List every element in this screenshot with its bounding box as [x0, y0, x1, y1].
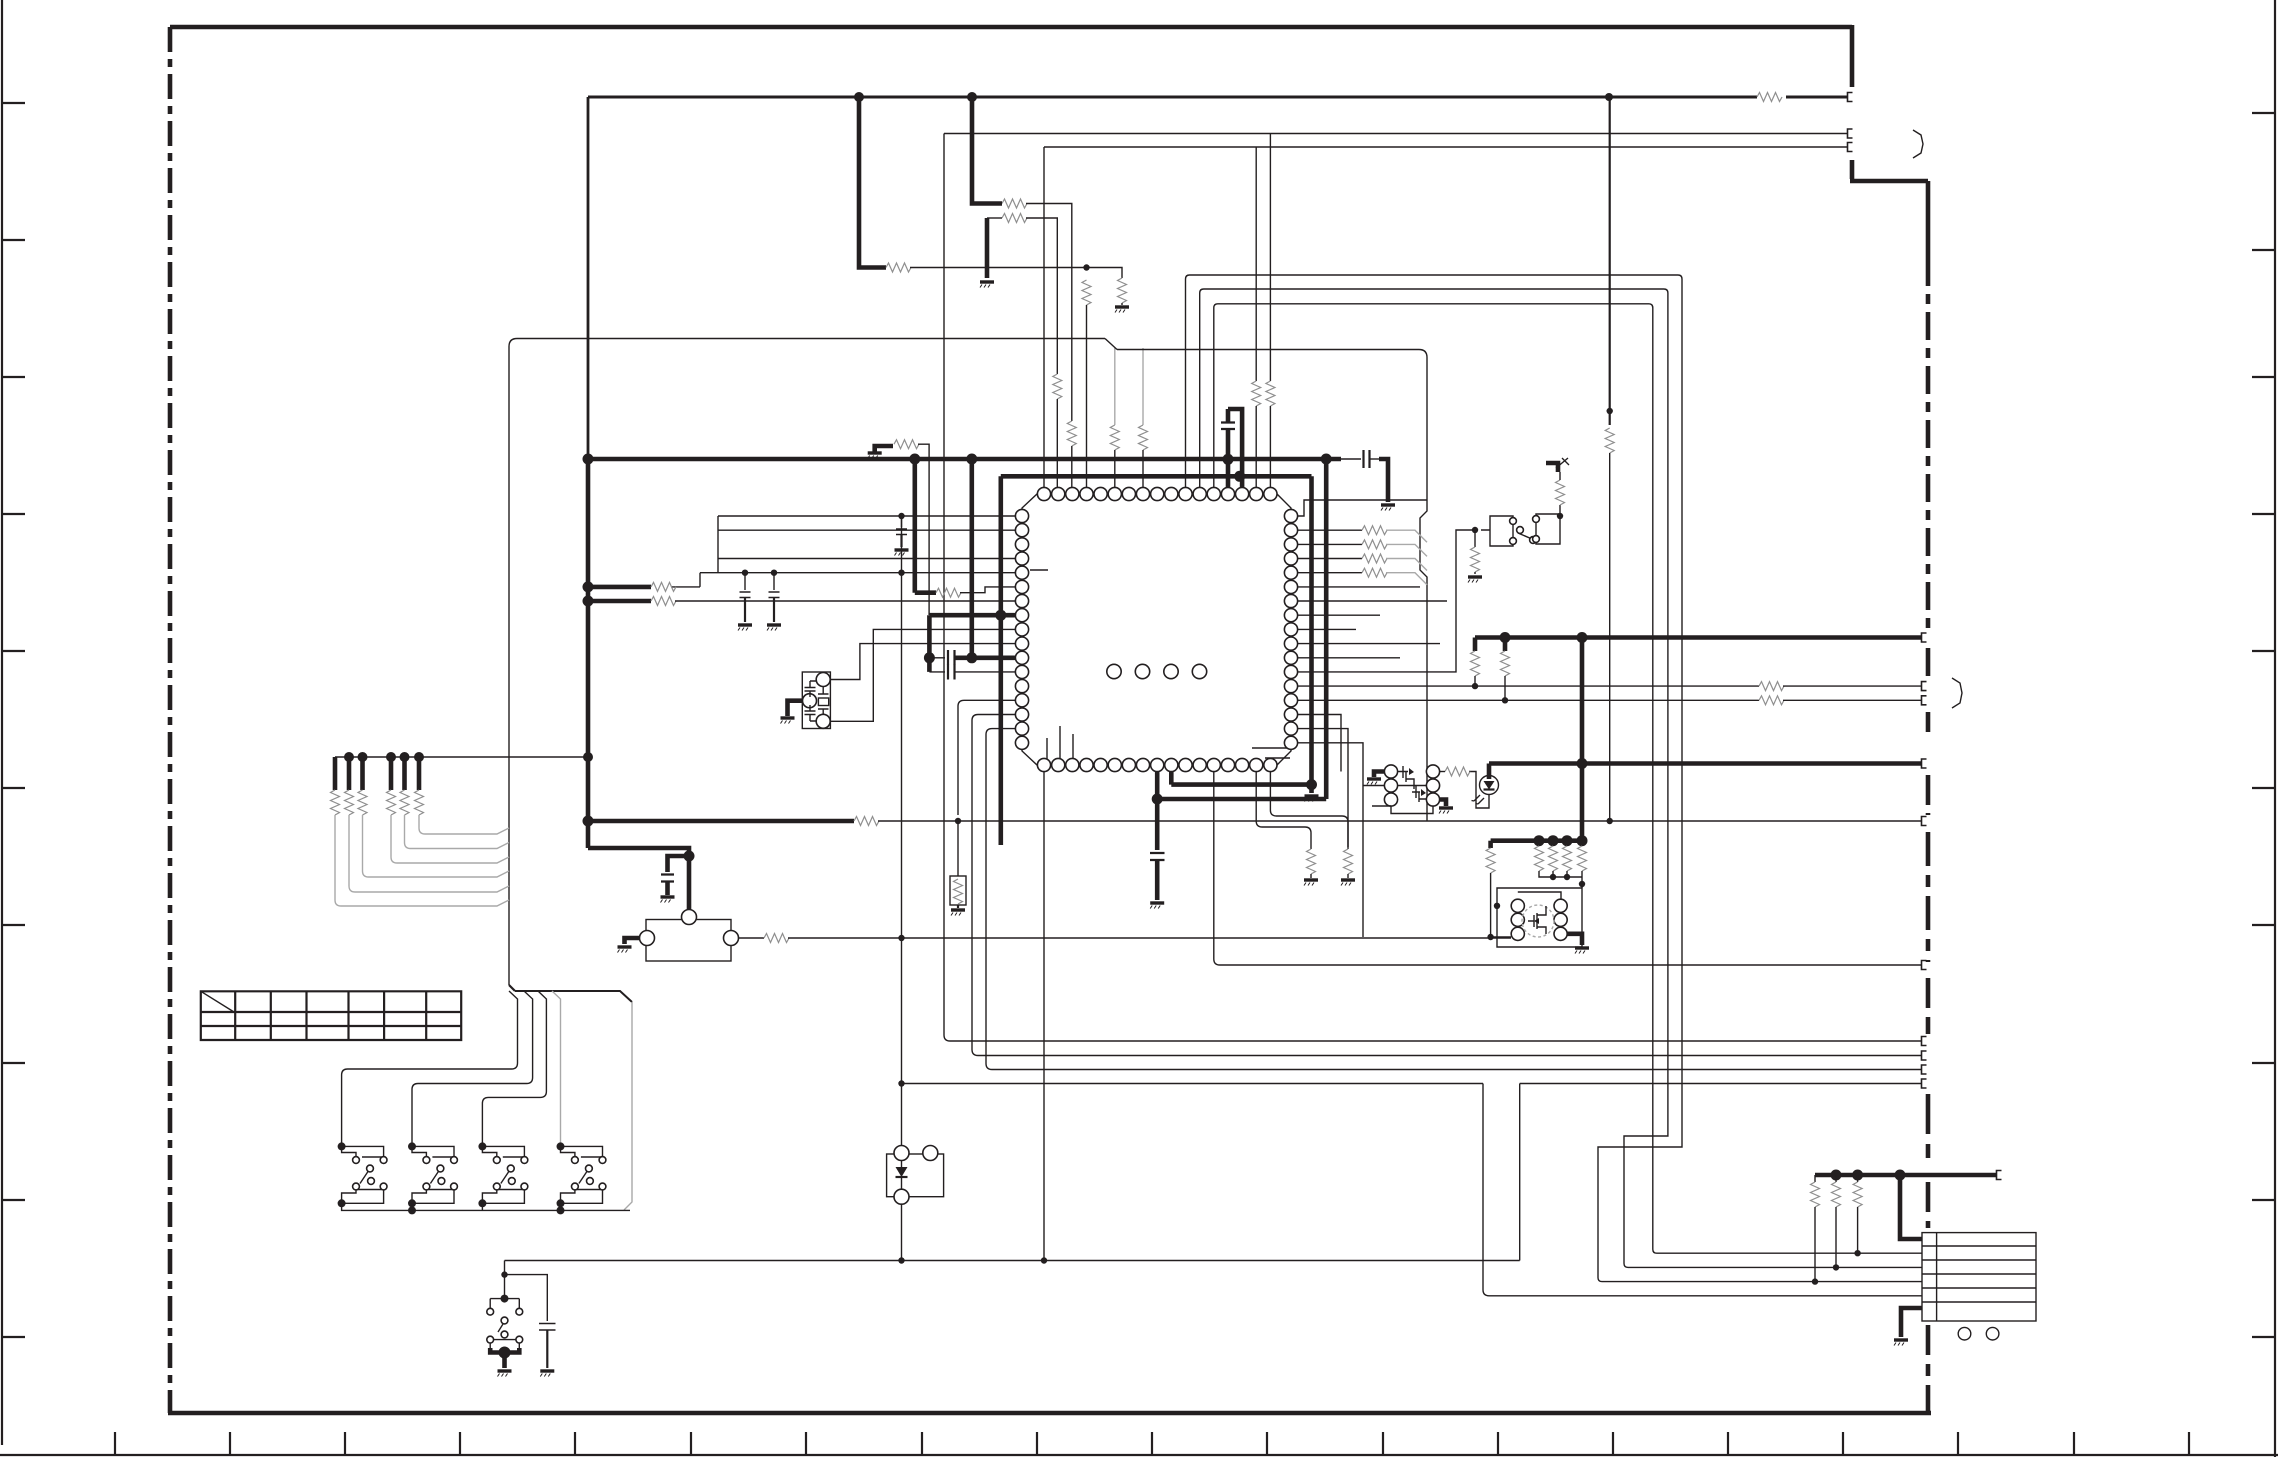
node junction top bus B [967, 92, 977, 102]
resistor R11 vertical above IC [1142, 348, 1144, 425]
ground G13 [1341, 880, 1355, 886]
bracket connector y=1175 [1997, 1171, 2002, 1180]
thick bus y=476.3 [1001, 474, 1312, 479]
resistor R8 vertical [1082, 280, 1091, 305]
thick elbow to ground G4 [1379, 459, 1388, 502]
node dots [338, 1142, 346, 1150]
node junction (901.5,1260.5) [898, 1257, 904, 1263]
wire x=1609 lower [1609, 453, 1611, 821]
ground G2 [980, 282, 994, 288]
resistor R4 [1002, 214, 1027, 223]
wire y=1083.5 right segment [1520, 1083, 1921, 1085]
page right edge line [2274, 0, 2276, 1457]
wire IC bottom pin16 down [1256, 771, 1311, 849]
IC internal alignment stubs bottom-left [1047, 726, 1073, 762]
node junction (1475,530) [1472, 527, 1478, 533]
resistor R23 [1759, 696, 1784, 705]
jog 573-586 [671, 573, 700, 587]
page bottom edge line [0, 1454, 2278, 1456]
node junction (901.5,1083.5) [898, 1080, 904, 1086]
wire vertical x=901.5 [901, 516, 903, 1146]
node junctions on y=840.7 [1534, 835, 1545, 846]
wire IC left pin4 y=558.5 [718, 558, 1015, 560]
fan drop wires to switches [342, 991, 518, 1146]
resistor R15 [936, 588, 961, 597]
resistor R17 [739, 937, 765, 939]
bracket connector y=700 [1922, 696, 1927, 705]
wire right pin7 stub [1297, 600, 1447, 602]
IC U1 left pin column [1015, 509, 1028, 749]
wire right pin11 stub [1297, 657, 1400, 659]
thick net x=1001 elbow [998, 476, 1003, 845]
node junction (1505,637.5) [1500, 632, 1511, 643]
wire R3 to IC pin 3 top [1071, 446, 1073, 487]
resistor R44 vertical [1835, 1175, 1837, 1182]
resistor R5 vertical [1053, 374, 1062, 399]
ground G9 [661, 897, 675, 903]
frame right step segment [1850, 160, 1928, 258]
bus elbow to fan [509, 985, 515, 991]
node junctions on y=1175 [1831, 1170, 1842, 1181]
LED D1 [1487, 764, 1492, 780]
switch S5 [487, 1275, 523, 1377]
node junction (1239.7,476.3) [1234, 471, 1245, 482]
Q2 mosfet glyph [1412, 786, 1427, 802]
resistor R10 vertical above IC [1114, 348, 1116, 425]
node junction (1505,700) [1502, 697, 1508, 703]
resistor R42 vertical [1307, 849, 1316, 874]
resistor R30 vertical [1488, 841, 1493, 848]
IC internal stub left [1030, 569, 1048, 571]
resistor group R18-R21 from right pins [1297, 529, 1362, 531]
node junction (914.8,459) [909, 454, 920, 465]
wire thin y=757 [335, 756, 588, 758]
bus top edge y=348 continues [1117, 350, 1427, 358]
wire thick elbow to gnd G2 [985, 218, 990, 278]
resistor R16 [854, 817, 879, 826]
resistor R3 vertical [1067, 421, 1076, 446]
node junction (929.4,657.4) [924, 652, 935, 663]
page right ticks [2252, 113, 2275, 1337]
node junction (971.8,657.4) [966, 652, 977, 663]
ground G15 thick [1374, 772, 1384, 778]
node junction (1475,686) [1472, 683, 1478, 689]
node junction (1326,459) [1321, 454, 1332, 465]
grey loop pin10 wire [986, 729, 1921, 1070]
node junction (958,821) [955, 818, 961, 824]
node junction (588,459) [583, 454, 594, 465]
bracket connector y=134 [1848, 129, 1853, 138]
node junction (901.5,572.7) [898, 570, 904, 576]
wire from middle circles [1363, 785, 1384, 787]
Q3 mosfet glyph [1528, 906, 1546, 934]
wire vertical x=718 [717, 516, 719, 573]
thick jog y=592.7 [915, 590, 936, 595]
resistor R45 vertical [1857, 1175, 1859, 1182]
crystal X1 block [802, 672, 830, 729]
loop 2 wire [1200, 289, 1922, 1267]
wire IC bottom pin1 long vertical [1043, 771, 1045, 1261]
IC center index circles [1107, 664, 1121, 678]
thick wire into connector pin1 [1900, 1175, 1922, 1239]
ground G12 [1150, 903, 1164, 909]
wire IC left pin7 y=601 resistor line [588, 599, 651, 604]
ground G11 [1309, 785, 1314, 793]
wire R8 to IC pin 4 top [1086, 305, 1088, 487]
node junction (901.5,516) [898, 513, 904, 519]
thick bus y=1175 [1815, 1173, 1996, 1178]
IC U1 bottom pin row [1037, 758, 1277, 771]
IC U1 body outline [1022, 494, 1291, 765]
wire connector row4 y=1295.8 [1483, 1084, 1922, 1296]
node junction (588,601) [583, 596, 594, 607]
frame right dash-dot border [1926, 258, 1931, 628]
wire thick branch x=859 down [859, 97, 886, 268]
bracket connector top bus [1848, 93, 1853, 102]
capacitor C7 branch [668, 856, 690, 872]
bracket connector y=686 [1922, 682, 1927, 691]
wire y=937 into block [1491, 936, 1511, 938]
resistor R26 vertical above [1559, 505, 1561, 516]
resistor R34 vertical [1578, 846, 1587, 871]
bracket connector y=1055 [1922, 1051, 1927, 1060]
wire long top line y=133.5 [944, 133, 1847, 135]
wire vertical x=1044 to IC pin1 top [1043, 147, 1045, 487]
diode block D2 [887, 1146, 944, 1205]
IC U1 right pin column [1284, 509, 1297, 749]
wire thick y=821 from x=588 [588, 819, 854, 824]
connector J1 body [1922, 1233, 2036, 1321]
node junction (689,856) [684, 851, 695, 862]
resistor R22 [1759, 682, 1784, 691]
wire right pin13 y=686 [1297, 685, 1759, 687]
thick wire to pin11 left [972, 655, 1015, 660]
resistor R29 [1445, 767, 1470, 776]
thick branch x=971.8 down [969, 459, 974, 658]
loop 3 wire [1214, 304, 1922, 1253]
bracket connector y=1069 [1922, 1065, 1927, 1074]
wire diode to y=1260.5 [901, 1204, 903, 1260]
IC internal stubs bottom-right [1252, 748, 1290, 758]
ground G7 [738, 625, 752, 631]
resistor R6 vertical on x=1609 [1605, 428, 1614, 453]
node junction (504.5,1274.6) [501, 1271, 507, 1277]
wire thick elbow x=588 y=848 [588, 848, 689, 910]
frame top thick border [170, 25, 1852, 30]
node junction (1000.8,615.2) [995, 610, 1006, 621]
thick vertical x=1582 [1580, 638, 1585, 841]
ground G22 for X1 [788, 701, 803, 716]
node junction (1497,905.8) [1494, 903, 1500, 909]
resistor R on top bus [1757, 93, 1782, 102]
thick branch x=914.8 down [912, 459, 917, 593]
node junction (1582,763.5) [1577, 758, 1588, 769]
node junction (1490.6,937) [1487, 934, 1493, 940]
ground G10 via thick lead [625, 938, 640, 944]
connector mounting circles [1958, 1327, 1971, 1340]
elbow up at left [504, 1261, 506, 1275]
wire branch to capacitor C10 [505, 1275, 548, 1321]
capacitor C8 below [1155, 799, 1160, 850]
bracket connector y=968 [1922, 961, 1927, 970]
bracket connector y=637 [1922, 633, 1927, 642]
capacitor C4 vertical [773, 573, 775, 590]
page bottom ticks [115, 1432, 2189, 1455]
thick bus y=840.7 [1491, 838, 1582, 843]
staircase wires into bus x=509 [419, 815, 509, 834]
wire down to block [1581, 877, 1583, 888]
bracket connector y=147 [1848, 143, 1853, 152]
node junction top bus A [854, 92, 864, 102]
wire right pin14 y=700.3 [1297, 699, 1759, 701]
node junction (1311.5,784.6) [1306, 779, 1317, 790]
capacitor C3 vertical [744, 573, 746, 590]
switch S2 lever [1518, 533, 1532, 539]
resistor R2 [1002, 199, 1027, 208]
capacitor C2 vertical at x=901.5 [901, 516, 903, 527]
brace right middle pair [1952, 678, 1962, 708]
ground G5 + resistor R14 above bus [875, 446, 893, 452]
oscillator X1 body [646, 920, 731, 962]
wire IC bottom pin13 to bracket y=968.5 [1214, 771, 1921, 965]
Q1 mosfet glyph [1398, 766, 1414, 789]
ground G4 [1381, 505, 1395, 511]
capacitor C5 series [929, 657, 945, 659]
ground G8 [767, 625, 781, 631]
resistor R43 vertical [1814, 1175, 1816, 1182]
resistor R9 vertical [1118, 278, 1127, 303]
wire right pin17 down [1297, 743, 1363, 937]
bracket connector y=821 [1922, 817, 1927, 826]
ground G17 thick [1567, 934, 1582, 945]
wire IC bottom pin17 down [1270, 771, 1348, 847]
resistor R32 vertical [1549, 846, 1558, 871]
node junction (901.5,938) [898, 935, 904, 941]
wire R5 to IC pin 2 top [1056, 399, 1058, 487]
capacitor C6 series to pin [948, 665, 955, 680]
boxed resistor R35 (x=958) [957, 821, 959, 876]
wire right pin16 down [1297, 729, 1348, 849]
bus box top edge y=341 [509, 339, 517, 986]
thick corner down x=929.4 [927, 615, 932, 672]
wire switch feed pin12 [1297, 530, 1475, 672]
node junction (1157.2,799) [1152, 794, 1163, 805]
wire crystal top to pin10 y=643.6 [830, 644, 1015, 680]
wire thick bus y=459 [588, 457, 1341, 462]
resistor R7 [886, 263, 911, 272]
switch S2 left body [1481, 516, 1513, 546]
wire right pin6 stub [1297, 586, 1420, 588]
thick wire pin10 bottom y=784.6 [1171, 771, 1311, 785]
thick wire pin9 bottom x=1157 [1157, 771, 1326, 799]
resistor R12 vertical above IC pins 16 [1255, 147, 1257, 381]
wire R2 to x=1072 [1026, 204, 1072, 422]
power transistor Q3 block [1494, 888, 1589, 954]
IC top pin14-15 pi-bridge with capacitor C9 [1226, 459, 1231, 487]
six pull resistors R36-R41 [331, 752, 425, 815]
wire crystal bottom to pin9 y=629.4 [830, 629, 1015, 721]
wire right pin9 stub [1297, 628, 1356, 630]
ground G14 [1468, 577, 1482, 583]
node junction (588,757) [583, 752, 593, 762]
thick vertical x=1326 [1324, 459, 1329, 799]
grey loop pin8 wire [958, 700, 1015, 815]
resistor R13 vertical above IC pin 17 [1269, 134, 1271, 382]
node junction (1560,516) [1557, 513, 1563, 519]
resistor R27 vertical [1471, 651, 1480, 676]
bracket connector y=1083 [1922, 1079, 1927, 1088]
resistor R33 vertical [1563, 846, 1572, 871]
wire right pin15 down [1297, 715, 1341, 772]
switch body upper [342, 1146, 384, 1157]
thick net pin8 y=615.2 [929, 613, 1015, 618]
node junction y=267 x=1086 [1083, 264, 1089, 270]
node junction (1044,1260.5) [1041, 1257, 1047, 1263]
switch body lower [342, 1190, 384, 1204]
wire IC left pin2 y=530 [718, 529, 1015, 531]
switch bottom bus [342, 1203, 630, 1210]
frame bottom thick border [168, 1411, 1931, 1416]
ground G6 [895, 550, 909, 556]
thick vertical x=1311.5 [1309, 476, 1314, 784]
bus right edge x=1427 [1420, 358, 1427, 821]
node junction (774,572.7) [771, 570, 777, 576]
wire IC left pin5 y=572.7 [700, 572, 1015, 574]
thick bus y=637.5 [1475, 635, 1921, 640]
node junction top bus C [1605, 93, 1613, 101]
switch S2 right body [1536, 514, 1560, 544]
wire R4 to x=1057 [1026, 218, 1057, 374]
LED return path [1469, 772, 1489, 809]
wire vertical x=1609 [1609, 97, 1611, 425]
ground G18 [951, 910, 965, 916]
thick bus y=763.5 [1489, 761, 1921, 766]
wire vertical x=588 [587, 97, 590, 459]
frame left dash-dot border [168, 27, 173, 1413]
wire right pin8 stub [1297, 614, 1380, 616]
cluster outline [1372, 806, 1433, 814]
wire right pin10 stub [1297, 643, 1440, 645]
wire y=1260.5 [505, 1260, 1520, 1262]
node junction (1610,821) [1607, 818, 1613, 824]
wire y=1041 from x=944 [950, 1040, 1921, 1042]
grey loop pin9 wire [972, 715, 1921, 1056]
capacitor C1 at end of bus [1341, 458, 1361, 460]
resistor R31 vertical [1535, 846, 1544, 871]
thick stub down left end [1473, 638, 1478, 652]
wire IC left pin6 y=586.9 resistor line [588, 585, 651, 590]
wire thick branch x=972 down [972, 97, 1002, 204]
node junction (588,821) [583, 816, 594, 827]
bracket connector y=1041 [1922, 1037, 1927, 1046]
wire y=1083.5 left segment [902, 1083, 1484, 1085]
node junction (745,572.7) [742, 570, 748, 576]
ground G16 thick right [1440, 800, 1446, 807]
wire IC left pin1 y=516 [718, 515, 1015, 517]
key/test point TP1 [1546, 463, 1558, 472]
wire osc output y=937 [788, 937, 1511, 939]
wire vertical x=944 long [944, 134, 950, 1042]
node junction (1582,637.5) [1577, 632, 1588, 643]
resistor R24 vertical [1344, 849, 1353, 874]
bus jog at x=1111 [1105, 339, 1117, 350]
bracket connector y=764 [1922, 759, 1927, 768]
wire right pin1 jog [1297, 500, 1427, 516]
connector ground G21 [1901, 1308, 1922, 1337]
node junction (971.8,459) [966, 454, 977, 465]
table grid [201, 991, 461, 1040]
ground G19 [540, 1371, 554, 1377]
frame right top segment [1850, 25, 1855, 87]
lever [367, 1165, 374, 1172]
wire VCC top bus y=97 [588, 96, 1757, 99]
page left ticks [2, 103, 25, 1337]
loop 1 wire [1186, 275, 1923, 1282]
page left edge line [1, 0, 3, 1445]
ground G20 [1304, 880, 1318, 886]
crystal element [818, 698, 828, 706]
IC U1 top pin row [1037, 487, 1277, 500]
wire y=1260.5 right end up [1519, 1084, 1521, 1261]
node junction (588,586.9) [583, 581, 594, 592]
switch S2 feed resistor R25 [1474, 530, 1476, 547]
wire long top line y=147 [1044, 146, 1847, 148]
crystal caps [805, 681, 817, 697]
ground G3 [1121, 303, 1123, 305]
brace right top pair [1913, 130, 1923, 158]
resistor R28 vertical [1503, 638, 1508, 652]
transistor Q1 Q2 body circles [1384, 765, 1397, 778]
table diagonal [201, 991, 234, 1012]
